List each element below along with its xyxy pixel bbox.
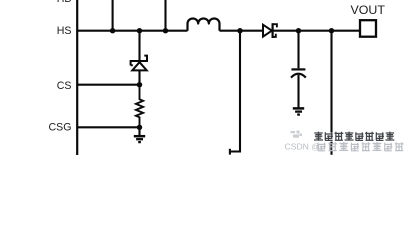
wire capacitor to ground: [297, 75, 299, 108]
schottky diode D2: [263, 23, 277, 38]
svg-text:HS: HS: [57, 25, 72, 37]
svg-text:CSG: CSG: [49, 121, 72, 133]
svg-text:CS: CS: [57, 80, 72, 92]
wire vertical from top at x=165.5: [164, 0, 166, 31]
wire vertical from top at node HB cap column: [112, 0, 114, 31]
junction dot return branch: [237, 28, 242, 33]
VOUT terminal box: [360, 20, 376, 37]
svg-text:VOUT: VOUT: [350, 3, 385, 17]
junction dot output cap: [296, 28, 301, 33]
wire inductor to diode: [220, 30, 264, 32]
junction dot zener branch: [137, 28, 142, 33]
IC right edge boundary line: [76, 0, 78, 155]
ground below CSG node: [134, 127, 145, 142]
wire HS node down to zener D1: [138, 31, 140, 60]
plate tick at end of return wire (cut off): [229, 149, 231, 155]
wire HS pin to inductor: [77, 30, 188, 32]
wire output return vertical (cut off at bottom): [330, 31, 332, 155]
watermark line 1: 硬件之路学习笔记 (simulated glyphs): [314, 132, 394, 141]
wire down to capacitor C1: [297, 31, 299, 69]
svg-text:HB: HB: [57, 0, 72, 5]
capacitor C1 (polarized, curved bottom plate): [291, 69, 306, 77]
wire CS pin line: [77, 84, 140, 86]
resistor R1 (current sense): [136, 85, 143, 128]
junction dot: [110, 28, 115, 33]
wire return branch down and left (cut off at bottom): [231, 31, 240, 152]
zener diode D1 (cathode up, curled bar): [131, 56, 147, 71]
wire diode to VOUT box: [274, 30, 360, 32]
inductor L1: [188, 18, 220, 30]
junction dot CS node: [137, 82, 142, 87]
wire zener anode to CS node: [138, 70, 140, 84]
svg-text:CSDN @: CSDN @: [285, 141, 320, 151]
watermark line 1: 硬件之路学习笔记 halo: [314, 132, 394, 141]
junction dot output return: [329, 28, 334, 33]
junction dot CSG node: [137, 125, 142, 130]
junction dot: [163, 28, 168, 33]
wire CSG pin line: [77, 126, 140, 128]
watermark icon (faint): [291, 131, 303, 138]
ground below capacitor C1: [293, 108, 304, 114]
